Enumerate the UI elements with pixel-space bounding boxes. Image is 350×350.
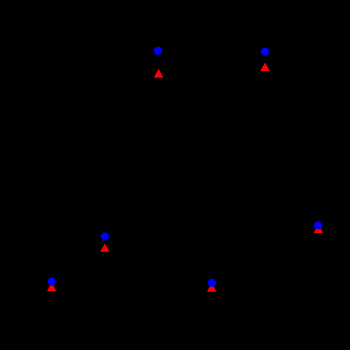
blue circle marker B2 — [261, 48, 269, 56]
blue circle marker B5 — [48, 278, 56, 286]
blue circle marker B6 — [208, 279, 216, 287]
red triangle marker T6 — [207, 283, 216, 292]
red triangle marker T4 — [314, 224, 323, 233]
blue circle marker B4 — [314, 221, 322, 229]
blue circle marker B3 — [101, 232, 109, 240]
red triangle marker T3 — [100, 244, 109, 252]
red triangle marker T1 — [154, 69, 163, 78]
red triangle marker T2 — [260, 63, 269, 72]
red triangle marker T5 — [47, 282, 56, 291]
blue circle marker B1 — [154, 47, 162, 55]
